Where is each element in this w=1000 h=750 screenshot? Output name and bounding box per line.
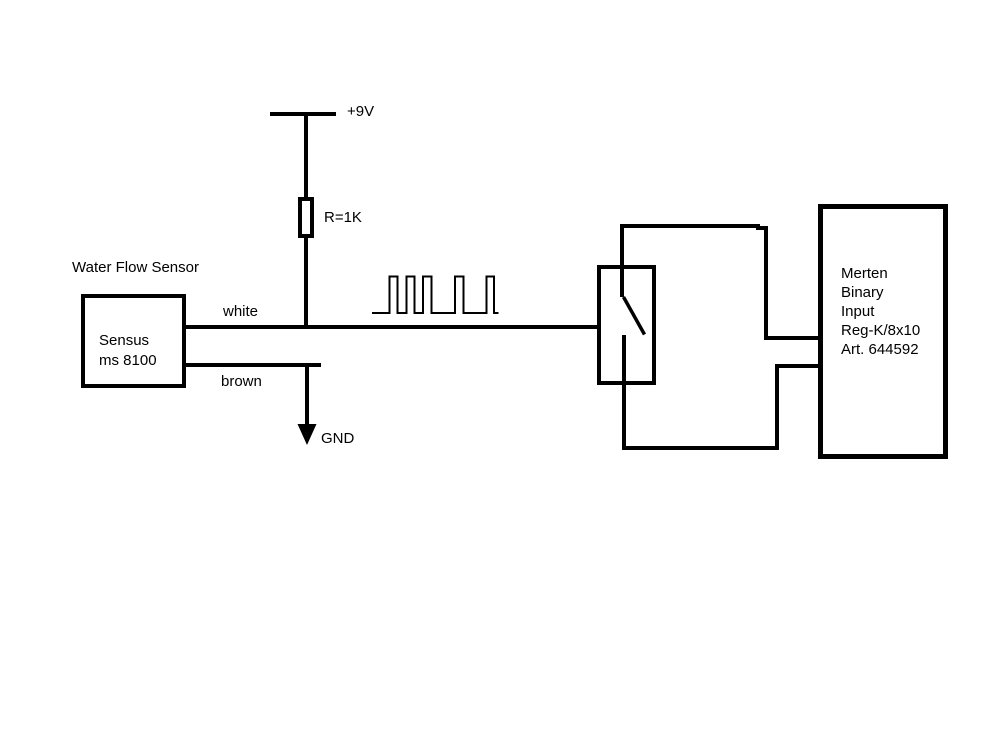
wire lower entry to binary input xyxy=(775,364,820,368)
wire bottom loop horizontal xyxy=(622,446,779,450)
wire top loop jog xyxy=(756,226,768,230)
wire top loop horizontal xyxy=(620,224,760,228)
wire white (sensor to switch) xyxy=(186,325,597,329)
switch box xyxy=(597,265,656,385)
label brown xyxy=(221,374,262,389)
wire upper entry to binary input xyxy=(764,336,820,340)
sensor box Sensus ms 8100 xyxy=(81,294,186,388)
wire resistor to white-wire junction xyxy=(304,238,308,329)
switch lower terminal wire xyxy=(622,335,626,450)
wire bottom loop right vertical xyxy=(775,364,779,450)
wire brown (sensor to GND drop) xyxy=(186,363,321,367)
Merten binary input box xyxy=(818,204,948,459)
resistor R=1K body xyxy=(298,197,314,238)
power rail +9V bar xyxy=(270,112,336,116)
label Merten Binary Input Reg-K/8x10 Art. 644592 xyxy=(841,264,920,359)
wire top loop right vertical xyxy=(764,226,768,340)
label Water Flow Sensor xyxy=(72,260,199,275)
wire +9V to resistor xyxy=(304,113,308,197)
label GND xyxy=(321,431,354,446)
wire GND drop xyxy=(305,365,309,425)
label white xyxy=(223,304,258,319)
label Sensus ms 8100 xyxy=(99,331,157,371)
label R=1K xyxy=(324,210,362,225)
label +9V xyxy=(347,104,374,119)
switch upper terminal wire xyxy=(620,228,624,297)
